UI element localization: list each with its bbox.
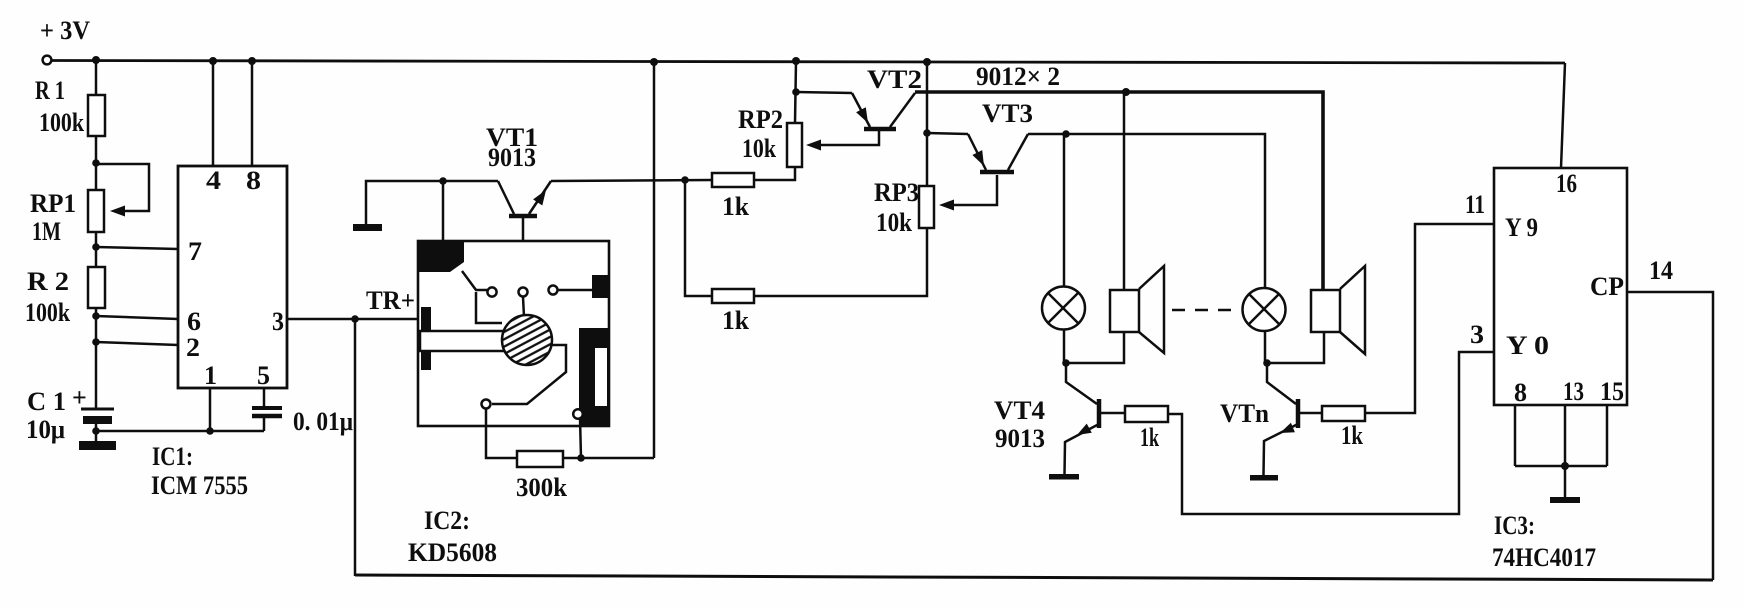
junction VTn collector node [1263,359,1271,367]
junction RP1/R2 node [92,243,100,251]
svg-text:2: 2 [186,333,200,362]
svg-text:RP2: RP2 [738,105,783,134]
wire C1 bottom [95,424,98,441]
IC IC1 ICM7555 box [178,166,287,390]
wire long vertical from bus to 300k [653,62,656,458]
svg-text:10k: 10k [742,134,776,163]
wire junction down to IC2 [442,181,445,242]
svg-text:VT4: VT4 [994,396,1045,425]
wire IC3 pin16 [1561,63,1565,168]
wire IC1 pin 4 [212,61,215,166]
junction pins 8-13-15 [1561,462,1569,470]
wire lamp1 bottom [1063,329,1066,363]
wire VT1 emitter to right [551,180,712,181]
wire R1 bottom [95,136,98,190]
resistor 300k [516,451,568,502]
junction VT4 collector node [1062,359,1070,367]
svg-text:10μ: 10μ [26,415,65,444]
wire IC1 pin 5 [263,388,266,406]
wire RP1 bottom [95,232,98,267]
junction 300k/pin5 [577,454,585,462]
transistor VTn 9013 [1264,363,1322,475]
svg-text:9013: 9013 [995,424,1045,453]
wire IC1 pin 3 output [287,318,418,321]
junction R2/pin6 [92,312,100,320]
IC2 right black column [579,328,609,425]
svg-text:11: 11 [1465,190,1485,219]
svg-text:100k: 100k [25,298,70,327]
svg-text:16: 16 [1556,169,1577,198]
wire 1k VTn to Y9 [1365,224,1494,413]
node +3V supply terminal [43,56,52,65]
svg-text:C 1: C 1 [27,387,66,416]
wire top +3V bus [52,61,1565,64]
transistor VT2 9012 [796,92,915,129]
junction pin2 node [92,338,100,346]
lamp HL1 [1042,287,1085,330]
svg-text:VTn: VTn [1220,399,1270,428]
wire speaker2 bottom [1267,332,1324,363]
junction speaker1 feed [1122,88,1130,96]
svg-text:0. 01μ: 0. 01μ [293,407,353,436]
wire to IC1 pin 2 [96,342,178,345]
wire lamp1 feed [1063,134,1066,289]
junction lamp1 feed [1062,130,1070,138]
svg-text:8: 8 [246,166,261,195]
ground VTn [1250,475,1278,481]
wire RP1 wiper loop [96,164,149,217]
pin circle 1 [487,287,496,296]
svg-text:Y 9: Y 9 [1505,213,1538,242]
wire speaker1 bottom [1066,332,1124,363]
speaker BL1 [1110,266,1164,353]
wire 1k VT4 to Y0 [1168,352,1494,514]
resistor R2 100k [25,267,105,327]
potentiometer RP3 10k [874,178,934,237]
IC2 bond wire 3 [558,289,592,292]
svg-text:8: 8 [1514,378,1527,407]
wire pins join [1515,465,1607,468]
IC2 trace to die [476,292,502,323]
junction VT2 emitter tap [792,88,800,96]
junction R1/RP1 [92,159,100,167]
IC2 pad top-left [418,242,464,272]
capacitor C1 10u [26,383,114,444]
svg-text:100k: 100k [39,108,84,137]
wire R2 bottom [95,308,98,408]
svg-text:9013: 9013 [488,143,536,172]
resistor R1 100k [35,76,105,137]
wire RP3 wiper to VT3 base [939,175,997,211]
wire RP2 top [795,61,796,123]
junction VT1 line / 1k branch [681,176,689,184]
pin circle 4 [482,400,491,409]
wire VT2 collector line (thick) [915,92,1323,290]
svg-text:300k: 300k [516,473,568,502]
ground VT1 left [353,224,382,231]
ground IC3 [1550,497,1580,503]
svg-text:TR+: TR+ [366,286,415,315]
potentiometer RP1 1M [30,189,104,246]
svg-text:+ 3V: + 3V [40,16,90,45]
transistor VT1 9013 [498,181,551,288]
IC2 die (hatched) [502,315,552,365]
wire pin5 down [580,418,581,458]
resistor 1k VTn [1322,406,1365,450]
wire IC1 pin 1 [209,388,212,431]
wire to IC3 ground [1564,466,1567,497]
wire to IC1 pin 7 [96,247,178,249]
speaker BL2 [1311,266,1365,354]
svg-text:R 1: R 1 [35,76,65,105]
wire RP3 top [926,62,929,186]
svg-text:14: 14 [1649,256,1673,285]
IC2 bond wire 1 [462,271,487,290]
wire R1 top [95,61,98,95]
wire 1k lower to RP3 bottom [754,228,927,296]
IC2 pad left-mid [421,307,431,330]
svg-text:9012× 2: 9012× 2 [976,62,1060,91]
junction C1 bottom node [92,427,100,435]
svg-text:RP1: RP1 [30,189,76,218]
resistor 1k lower [712,289,754,335]
svg-text:Y 0: Y 0 [1506,331,1549,360]
svg-text:KD5608: KD5608 [408,538,497,567]
svg-text:+: + [72,383,87,412]
junction bus/RP3 [923,58,931,66]
svg-text:13: 13 [1563,377,1584,406]
IC2 pad left-low [421,351,431,370]
svg-text:10k: 10k [876,208,912,237]
svg-text:ICM 7555: ICM 7555 [151,471,248,500]
transistor VT4 9013 [1065,363,1126,474]
junction pin3/TR node [351,315,359,323]
svg-text:3: 3 [272,307,284,336]
svg-text:RP3: RP3 [874,178,919,207]
wire IC3 CP pin14 [1627,292,1713,580]
svg-text:1k: 1k [1341,421,1363,450]
resistor 1k upper [712,173,754,221]
wire VT3 collector line [1028,134,1265,288]
svg-text:1: 1 [204,361,217,390]
junction VT3 emitter tap [923,129,931,137]
ground below C1 [79,441,116,450]
svg-text:IC2:: IC2: [424,506,470,535]
wire RP2 wiper to VT2 base [806,131,879,151]
svg-text:6: 6 [187,307,201,336]
capacitor 0.01u [252,407,353,436]
ground VT4 [1049,474,1079,480]
svg-text:IC1:: IC1: [152,442,193,471]
svg-text:CP: CP [1590,272,1624,301]
transistor VT3 9012 [927,133,1028,172]
svg-text:1M: 1M [32,217,61,246]
IC2 trace die to pin4 [492,345,566,404]
svg-text:1k: 1k [722,306,750,335]
svg-text:VT2: VT2 [867,65,922,94]
wire IC3 pin 8 [1514,405,1517,466]
IC IC3 74HC4017 box [1494,168,1627,407]
svg-text:1k: 1k [1140,423,1159,452]
wire VT1 left with ground [366,181,498,224]
svg-text:15: 15 [1600,377,1624,406]
resistor 1k VT4 [1125,406,1168,452]
svg-text:R 2: R 2 [27,267,69,296]
pin circle 5 [573,409,583,419]
pin circle 2 [519,288,528,297]
junction pin1 wire [206,427,214,435]
junction bus/RP2 [792,57,800,65]
IC IC2 KD5608 module box [418,241,609,426]
wire pin3 down to bottom bus [354,319,357,576]
wire 300k right [563,457,654,460]
junction bus/R1 [92,56,100,64]
svg-text:3: 3 [1470,320,1484,349]
svg-text:74HC4017: 74HC4017 [1492,543,1596,572]
wire speaker1 feed [1123,92,1126,289]
wire IC1 pin 8 [251,61,254,166]
wire IC3 pin 13 [1564,405,1567,466]
IC2 pad right-top [592,275,609,298]
junction IC2 feed [439,177,447,185]
potentiometer RP2 10k [738,105,802,167]
svg-text:1k: 1k [722,192,750,221]
IC2 electrode bar [420,331,504,351]
wire branch down [685,180,712,296]
wire bottom bus [355,575,1713,580]
wire to IC1 pin 6 [96,316,178,319]
svg-text:4: 4 [206,166,221,195]
svg-text:VT3: VT3 [982,99,1033,128]
wire lamp2 feed bottom [1264,330,1267,363]
junction bus/pin8 [248,57,256,65]
junction bus/654 [650,58,658,66]
wire IC3 pin 15 [1606,405,1609,466]
junction bus/pin4 [209,57,217,65]
svg-text:IC3:: IC3: [1494,511,1535,540]
lamp HL2 [1243,288,1286,331]
wire C1 to pins 1 and 5 [96,430,264,433]
wire 1k to RP2 [754,167,795,180]
wire pin4 to 300k [486,408,517,458]
pin circle 3 [549,286,558,295]
svg-text:7: 7 [188,237,202,266]
wire die top [523,297,524,317]
svg-text:5: 5 [257,361,270,390]
dashed link lamps [1172,309,1238,312]
